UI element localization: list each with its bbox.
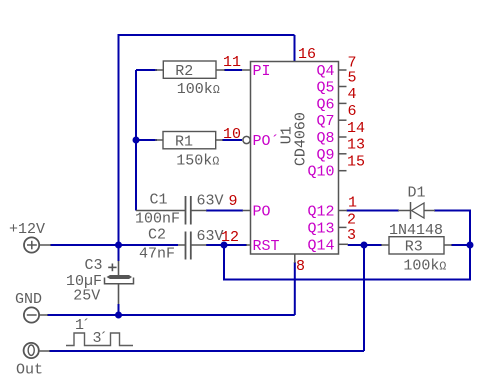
- wire C1 right to pin 9: [206, 210, 243, 212]
- capacitor C3: [85, 257, 134, 284]
- node GND junction: [115, 312, 122, 319]
- resistor R2: [155, 61, 225, 80]
- pin Q4 label: [316, 63, 334, 80]
- pin Q12 label: [307, 204, 334, 221]
- value 25V C3: [73, 288, 100, 305]
- node R3 right junction: [467, 242, 474, 249]
- wire R1 left: [136, 139, 157, 141]
- svg-text:C1: C1: [150, 192, 168, 209]
- pin stub Q5: [339, 86, 347, 88]
- svg-text:15: 15: [347, 153, 365, 170]
- svg-text:63V: 63V: [197, 193, 224, 210]
- pin stub Q10: [339, 170, 347, 172]
- pin stub Q8: [339, 136, 347, 138]
- svg-text:13: 13: [347, 137, 365, 154]
- wire C2 left: [119, 244, 179, 246]
- pin stub Q6: [339, 102, 347, 104]
- op-amp U1 CD4060 body: [251, 62, 339, 255]
- pin Q8 label: [316, 130, 334, 147]
- pin number 8: [296, 258, 305, 275]
- svg-text:3: 3: [347, 227, 356, 244]
- svg-text:Q4: Q4: [316, 63, 334, 80]
- svg-text:Q13: Q13: [307, 220, 334, 237]
- svg-text:Q9: Q9: [316, 147, 334, 164]
- svg-text:C3: C3: [85, 257, 103, 274]
- svg-text:9: 9: [229, 193, 238, 210]
- resistor R3: [381, 237, 452, 256]
- value 1N4148 D1: [389, 222, 443, 239]
- pin stub PO' bubble: [243, 136, 250, 143]
- svg-text:PI: PI: [253, 63, 271, 80]
- value 100nF C1: [135, 211, 180, 228]
- value 63V C1: [197, 193, 224, 210]
- value 100k R3: [403, 258, 446, 275]
- pin Q13 label: [307, 220, 334, 237]
- terminal +12V: [9, 221, 51, 253]
- terminal GND: [15, 291, 48, 323]
- pin stub PO: [243, 210, 251, 212]
- svg-text:Q5: Q5: [316, 80, 334, 97]
- pin stub Q9: [339, 153, 347, 155]
- capacitor C1: [136, 192, 207, 225]
- svg-text:Q12: Q12: [307, 204, 334, 221]
- wire GND rail: [47, 314, 295, 316]
- waveform timing diagram: [66, 317, 133, 347]
- pin number 15: [347, 153, 365, 170]
- svg-text:14: 14: [347, 120, 365, 137]
- pin PO' label: [253, 133, 280, 150]
- pin number 13: [347, 137, 365, 154]
- svg-text:47nF: 47nF: [139, 246, 175, 263]
- svg-text:R1: R1: [175, 133, 193, 150]
- value 150k R1: [176, 153, 219, 170]
- wire R2 left: [136, 69, 157, 71]
- pin number 4: [348, 86, 357, 103]
- wire R1 right to pin 10: [222, 139, 242, 141]
- wire Out row: [49, 350, 364, 352]
- wire D1 to right rail: [434, 210, 471, 212]
- pin Q10 label: [307, 164, 334, 181]
- svg-text:Q10: Q10: [307, 164, 334, 181]
- svg-text:3´: 3´: [93, 330, 109, 347]
- wire pin 16 drop: [294, 35, 296, 62]
- svg-text:4: 4: [348, 86, 357, 103]
- svg-text:63V: 63V: [197, 228, 224, 245]
- pin number 12: [221, 229, 239, 246]
- pin Q5 label: [316, 80, 334, 97]
- pin number 10: [223, 126, 241, 143]
- wire C3 top lead: [118, 245, 120, 275]
- wire Q14 to R3: [348, 244, 382, 246]
- node RST junction: [221, 242, 228, 249]
- svg-text:PO: PO: [253, 204, 271, 221]
- pin stub Q4: [339, 69, 347, 71]
- pin number 6: [348, 103, 357, 120]
- wire pin 8 drop: [294, 262, 296, 315]
- wire C2 right to pin 12: [206, 244, 247, 246]
- wire Out vertical: [363, 245, 365, 351]
- resistor R1: [155, 132, 223, 151]
- wire R3 right: [451, 244, 470, 246]
- value 47nF C2: [139, 246, 175, 263]
- svg-text:Q7: Q7: [316, 113, 334, 130]
- svg-text:R2: R2: [175, 63, 193, 80]
- svg-text:100nF: 100nF: [135, 211, 180, 228]
- pin stub Q7: [339, 119, 347, 121]
- wire VDD left rail: [118, 34, 120, 245]
- pin number 16: [298, 46, 316, 63]
- pin stub PI: [242, 69, 251, 71]
- pin PI label: [253, 63, 271, 80]
- wire +12V rail: [50, 244, 119, 246]
- svg-text:Q14: Q14: [307, 237, 334, 254]
- svg-text:12: 12: [221, 229, 239, 246]
- pin number 2: [347, 212, 356, 229]
- pin stub RST: [246, 244, 251, 246]
- wire VDD top rail: [119, 34, 295, 36]
- pin PO label: [253, 204, 271, 221]
- capacitor C2: [148, 227, 207, 260]
- svg-text:Q6: Q6: [316, 96, 334, 113]
- pin stub Q13: [339, 226, 347, 228]
- diode D1: [398, 185, 435, 220]
- value 10uF C3: [66, 273, 102, 290]
- svg-text:5: 5: [348, 69, 357, 86]
- svg-text:100kΩ: 100kΩ: [403, 258, 446, 275]
- svg-text:GND: GND: [15, 291, 42, 308]
- svg-text:1´: 1´: [75, 317, 91, 334]
- wire oscillator node vertical: [135, 70, 137, 211]
- wire Q12 to D1: [347, 210, 400, 212]
- wire RST feedback loop: [224, 211, 470, 280]
- svg-text:150kΩ: 150kΩ: [176, 153, 219, 170]
- pin number 3: [347, 227, 356, 244]
- terminal Out: [16, 343, 50, 379]
- node osc junction: [133, 137, 140, 144]
- pin number 1: [348, 194, 357, 211]
- value 63V C2: [197, 228, 224, 245]
- pin Q6 label: [316, 96, 334, 113]
- svg-text:R3: R3: [405, 238, 423, 255]
- value 100k R2: [177, 81, 220, 98]
- svg-text:11: 11: [223, 54, 241, 71]
- pin number 14: [347, 120, 365, 137]
- pin stub Q12: [339, 210, 348, 212]
- pin RST label: [253, 238, 280, 255]
- wire R2 right to pin 11: [224, 69, 242, 71]
- svg-text:16: 16: [298, 46, 316, 63]
- wire C3 bottom lead: [118, 284, 120, 315]
- svg-text:8: 8: [296, 258, 305, 275]
- svg-text:6: 6: [348, 103, 357, 120]
- node Q14 junction: [361, 242, 368, 249]
- pin number 9: [229, 193, 238, 210]
- pin number 11: [223, 54, 241, 71]
- svg-text:RST: RST: [253, 238, 280, 255]
- svg-text:Q8: Q8: [316, 130, 334, 147]
- pin stub 8: [294, 254, 296, 263]
- svg-text:100kΩ: 100kΩ: [177, 81, 220, 98]
- svg-text:10: 10: [223, 126, 241, 143]
- svg-text:Out: Out: [16, 362, 43, 379]
- pin number 5: [348, 69, 357, 86]
- svg-text:CD4060: CD4060: [293, 112, 310, 166]
- svg-text:PO´: PO´: [253, 133, 280, 150]
- pin Q9 label: [316, 147, 334, 164]
- svg-text:1: 1: [348, 194, 357, 211]
- svg-text:C2: C2: [148, 227, 166, 244]
- svg-text:25V: 25V: [73, 288, 100, 305]
- svg-text:+12V: +12V: [9, 221, 45, 238]
- pin stub Q14: [339, 243, 349, 245]
- pin Q7 label: [316, 113, 334, 130]
- node +12V junction: [115, 242, 122, 249]
- svg-text:D1: D1: [408, 185, 426, 202]
- pin number 7: [348, 55, 357, 72]
- pin Q14 label: [307, 237, 334, 254]
